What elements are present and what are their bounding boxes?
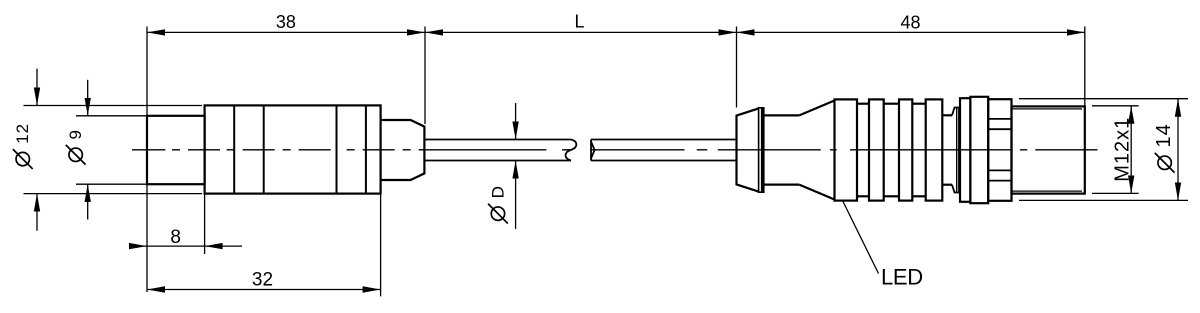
grip band 1: [835, 99, 858, 200]
wide ring: [960, 98, 970, 202]
arrow ØD bottom: [512, 161, 518, 179]
svg-text:38: 38: [276, 12, 296, 32]
body division line 2: [263, 105, 265, 193]
bottom dimension 8: [131, 245, 242, 247]
Ø12 extension lines: [24, 106, 203, 194]
svg-text:LED: LED: [881, 265, 923, 290]
grip groove 2: [884, 104, 899, 197]
cable right segment: [591, 140, 736, 161]
connector bell boot: [737, 108, 759, 191]
arrow ØD top: [512, 122, 518, 140]
extension line 8 right: [204, 194, 206, 254]
svg-text:32: 32: [252, 270, 273, 291]
grip groove 1: [857, 104, 869, 197]
M12x1 extension lines: [1092, 106, 1139, 194]
grip rib 2: [869, 99, 884, 200]
small ring inner line: [956, 108, 958, 193]
svg-text:14: 14: [1153, 123, 1175, 147]
extension line 32 right: [380, 194, 382, 297]
body division line 1: [233, 105, 235, 193]
hex section: [988, 99, 1011, 201]
Ø9 extension lines: [76, 116, 147, 184]
cable break left S-curve: [566, 140, 577, 161]
arrow 8 right: [205, 243, 223, 249]
cable diameter dimension lines: [515, 103, 517, 229]
svg-text:L: L: [574, 12, 584, 32]
sensor front tube Ø9: [147, 116, 205, 184]
bell collar inner line: [761, 108, 764, 192]
extension line at nose 425: [424, 27, 426, 125]
center axis line: [132, 149, 1098, 151]
Ø14 extension lines: [1019, 99, 1188, 201]
sensor nose: [381, 120, 425, 180]
grip groove 3: [912, 104, 925, 197]
Ø12 dimension arrows: [36, 69, 38, 231]
extension line at connector 737: [736, 27, 738, 108]
cable left segment: [424, 140, 571, 161]
Ø9 dimension arrows: [87, 80, 89, 220]
svg-text:M12x1: M12x1: [1112, 117, 1134, 182]
extension line / barrel end 1084.8: [1084, 27, 1086, 107]
Ø14 dimension line: [1177, 99, 1179, 201]
sensor main body Ø12: [205, 105, 381, 193]
hex facet line 4: [988, 180, 1011, 182]
boot expanding cone: [799, 101, 834, 200]
small chamfered ring: [952, 108, 959, 193]
bottom dimension 32: [147, 289, 381, 291]
sensor front face / extension line: [146, 27, 148, 293]
label Ø14: [1153, 123, 1175, 172]
svg-text:9: 9: [66, 129, 85, 139]
thread minor line bottom: [1012, 190, 1083, 192]
label Ø12: [13, 123, 33, 169]
bell collar ring: [759, 108, 764, 192]
grip rib 4: [926, 99, 943, 200]
boot neck: [764, 115, 799, 184]
connector neck behind grip: [942, 115, 952, 184]
hex facet line 3: [988, 169, 1011, 171]
arrow 8 left: [129, 243, 147, 249]
thread minor line top: [1012, 108, 1083, 110]
threaded barrel M12: [1012, 106, 1085, 193]
svg-text:12: 12: [13, 123, 32, 144]
svg-text:48: 48: [900, 13, 920, 33]
top dimension line 38: [147, 31, 425, 33]
svg-text:D: D: [488, 185, 507, 198]
top dimension line L: [425, 31, 737, 33]
M12x1 dimension line: [1130, 106, 1132, 194]
label Ø9: [66, 129, 86, 165]
hex facet line 2: [988, 128, 1011, 130]
body division line 4: [365, 105, 367, 193]
body division line 3: [336, 105, 338, 193]
cable break right beak: [591, 140, 595, 161]
hex facet line 1: [988, 118, 1011, 120]
LED leader line: [843, 202, 879, 274]
label ØD: [488, 185, 508, 223]
svg-text:8: 8: [170, 227, 181, 248]
grip rib 3: [899, 99, 912, 200]
knurled nut ring: [970, 97, 988, 203]
top dimension line 48: [737, 31, 1085, 33]
